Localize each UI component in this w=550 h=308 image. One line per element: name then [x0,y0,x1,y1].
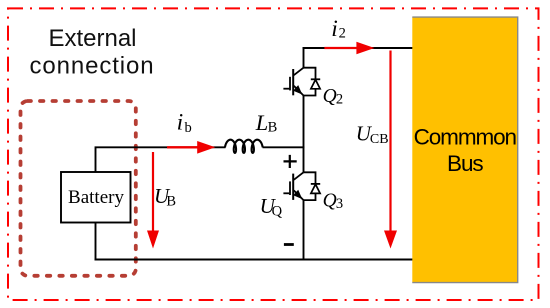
svg-text:i: i [331,16,338,42]
svg-text:Q: Q [323,190,337,211]
label UB [154,184,176,209]
svg-text:Bus: Bus [447,151,483,176]
voltage arrow UB [147,152,159,249]
anti-parallel diode branch wire [304,68,316,80]
current arrow i2 [324,42,374,55]
svg-text:L: L [255,110,269,135]
wire: inductor to midpoint node of phase leg [263,146,305,148]
svg-text:2: 2 [339,26,346,42]
label: External connection [29,25,154,80]
diode anode wire to emitter node [304,89,316,96]
battery subsystem dashed enclosure [21,101,136,276]
polarity plus mark [284,155,297,168]
svg-text:2: 2 [336,91,343,107]
polarity minus mark [284,243,294,246]
diode triangle [311,80,320,89]
diode cathode bar [311,78,320,80]
top rail wire to common bus [303,47,413,49]
svg-text:connection: connection [29,53,154,80]
emitter lead with arrow [293,85,303,95]
battery BT1 [61,172,131,223]
wire: phase-leg vertical, top rail corner to Q2 collector [303,48,305,68]
bottom rail wire to common bus [95,259,413,261]
IGBT body bar [292,69,294,95]
label UQ [260,194,283,219]
label LB [255,110,278,136]
label Q2 [323,86,344,108]
current arrow ib [167,141,215,154]
label Q3 [323,190,344,212]
svg-text:B: B [166,193,176,209]
voltage arrow UCB [384,51,397,249]
svg-text:b: b [185,120,192,136]
wire: battery negative down to bottom rail [95,222,97,260]
gate bar [289,77,291,91]
label UCB [356,122,389,147]
svg-text:CB: CB [370,132,389,147]
svg-text:Q: Q [272,203,283,219]
IGBT Q3 with anti-parallel diode [283,172,320,200]
inductor LB [225,140,263,153]
svg-text:External: External [48,25,136,52]
wire: Q3 emitter to bottom rail [303,200,305,259]
svg-text:B: B [268,120,278,136]
collector lead [294,68,304,76]
label ib [177,110,192,137]
IGBT Q2 with anti-parallel diode [283,68,320,96]
label i2 [331,16,346,42]
wire: battery positive to node A (mid rail) [96,147,226,171]
common bus block [412,17,517,283]
svg-text:3: 3 [336,196,343,212]
svg-text:Q: Q [323,86,337,107]
svg-text:Commmon: Commmon [414,124,517,149]
wire: Q2 emitter to Q3 collector [303,96,305,173]
svg-text:Battery: Battery [68,187,124,208]
gate lead [283,88,289,90]
svg-text:i: i [177,110,184,136]
